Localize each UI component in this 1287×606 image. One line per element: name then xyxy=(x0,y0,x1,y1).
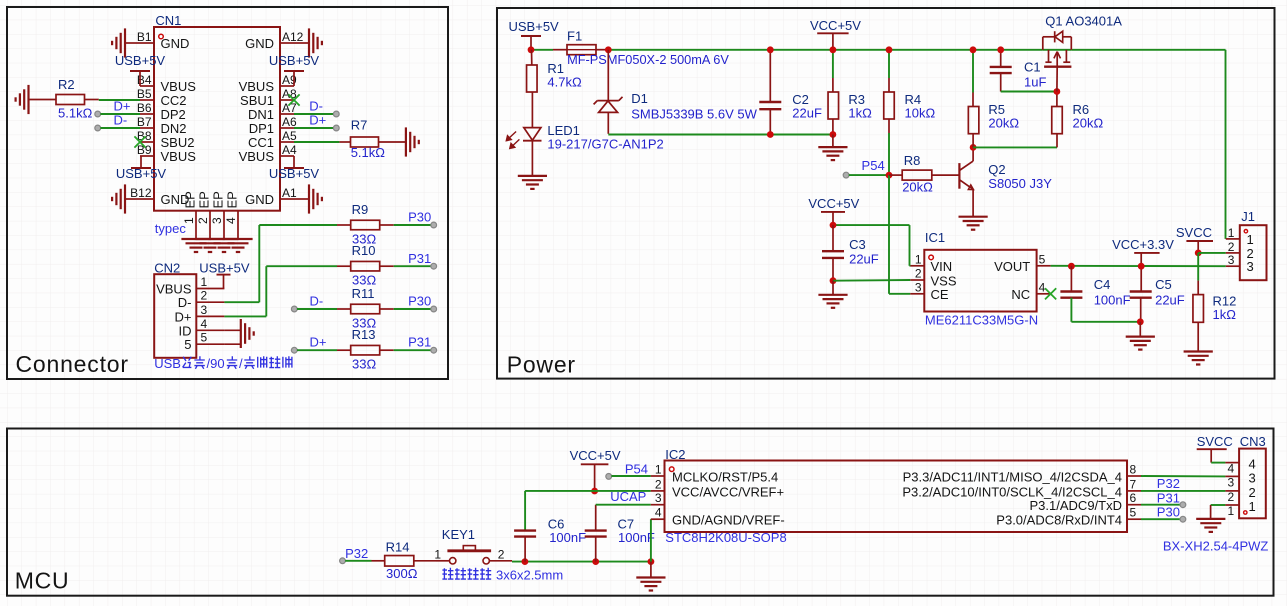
svg-text:22uF: 22uF xyxy=(849,252,879,267)
net label P30 at IC2 pin5 xyxy=(1141,504,1186,522)
svg-text:ME6211C33M5G-N: ME6211C33M5G-N xyxy=(925,313,1038,328)
svg-text:VCC+5V: VCC+5V xyxy=(808,196,859,211)
svg-text:EP: EP xyxy=(183,191,198,208)
net label P54 power xyxy=(843,158,889,178)
net label P31 at IC2 pin6 xyxy=(1141,490,1186,507)
IC1 pin 2 VSS xyxy=(910,267,957,289)
svg-text:SBU2: SBU2 xyxy=(161,135,195,150)
resistor R5 20k xyxy=(968,50,1019,148)
svg-text:5: 5 xyxy=(1130,506,1137,520)
svg-text:5.1kΩ: 5.1kΩ xyxy=(58,106,93,121)
svg-text:GND/AGND/VREF-: GND/AGND/VREF- xyxy=(672,513,785,528)
svg-text:3: 3 xyxy=(1249,470,1256,485)
ground at LED1 xyxy=(518,175,547,177)
CN1 pin A6 DP1 xyxy=(249,115,297,136)
svg-text:VBUS: VBUS xyxy=(161,79,197,94)
svg-text:ID: ID xyxy=(179,323,192,338)
svg-text:D-: D- xyxy=(309,99,323,114)
svg-text:4: 4 xyxy=(655,506,662,520)
svg-text:3: 3 xyxy=(1228,475,1235,489)
wire CN3 pin1 to ground xyxy=(1211,505,1226,519)
wire D1 to C2 to R3 bottom xyxy=(608,134,833,136)
IC2 pin 3 xyxy=(651,491,665,505)
svg-text:R8: R8 xyxy=(904,153,921,168)
svg-text:Connector: Connector xyxy=(16,351,129,377)
svg-text:10kΩ: 10kΩ xyxy=(905,105,936,120)
svg-text:MCU: MCU xyxy=(15,568,70,594)
svg-text:4.7kΩ: 4.7kΩ xyxy=(547,75,582,90)
IC1 pin 3 CE xyxy=(910,280,949,302)
wire SVCC to J1 pin2 xyxy=(1198,252,1226,254)
svg-text:2: 2 xyxy=(1228,490,1235,504)
net label P54 at IC2 xyxy=(606,462,651,480)
svg-text:19-217/G7C-AN1P2: 19-217/G7C-AN1P2 xyxy=(547,137,663,152)
svg-text:1: 1 xyxy=(915,252,922,266)
net label D+ at A6 xyxy=(294,113,339,131)
svg-text:F1: F1 xyxy=(567,28,582,43)
svg-text:1: 1 xyxy=(1228,504,1235,518)
svg-text:1: 1 xyxy=(434,547,441,561)
svg-text:P3.1/ADC9/TxD: P3.1/ADC9/TxD xyxy=(1030,498,1122,513)
svg-text:IC2: IC2 xyxy=(665,447,685,462)
net label P31 at R13 xyxy=(394,335,437,353)
wire R5 bottom to R6 bottom xyxy=(973,146,1057,148)
svg-text:A7: A7 xyxy=(282,101,297,115)
svg-text:P31: P31 xyxy=(408,251,431,266)
svg-text:D1: D1 xyxy=(631,91,648,106)
svg-text:R10: R10 xyxy=(352,243,376,258)
svg-text:D+: D+ xyxy=(309,113,326,128)
svg-text:3: 3 xyxy=(915,280,922,294)
svg-text:5: 5 xyxy=(201,331,208,345)
svg-text:USB+5V: USB+5V xyxy=(269,166,320,181)
junction C7 bottom xyxy=(592,558,599,565)
wire IC2 pin7 to CN3 pin2 xyxy=(1141,476,1225,491)
IC2 pin 1 xyxy=(651,463,778,485)
svg-text:22uF: 22uF xyxy=(792,105,822,120)
svg-text:CN1: CN1 xyxy=(155,13,181,28)
CN1 pin A9 VBUS xyxy=(239,73,297,94)
svg-text:20kΩ: 20kΩ xyxy=(988,116,1019,131)
power flag VCC+3.3V xyxy=(1112,237,1174,266)
svg-text:A1: A1 xyxy=(282,186,297,200)
CN1 pin EP2 xyxy=(196,191,212,239)
resistor R2 5.1k xyxy=(56,77,93,121)
svg-text:J1: J1 xyxy=(1241,209,1255,224)
section box Power xyxy=(497,8,1275,379)
svg-text:VCC+5V: VCC+5V xyxy=(810,18,861,33)
capacitor C6 100nF xyxy=(514,517,586,562)
CN2 pin 5 5 xyxy=(184,331,224,353)
svg-text:/90: /90 xyxy=(207,356,225,371)
CN2 pin 1 VBUS xyxy=(156,275,224,297)
capacitor C3 22uF xyxy=(822,225,879,281)
wire VOUT rail xyxy=(1051,265,1226,267)
svg-text:GND: GND xyxy=(245,192,274,207)
svg-text:B1: B1 xyxy=(137,30,152,44)
mcu IC2 body xyxy=(665,447,1128,545)
svg-text:D+: D+ xyxy=(114,99,131,114)
svg-text:1kΩ: 1kΩ xyxy=(1213,307,1237,322)
ground at C5 xyxy=(1126,322,1155,350)
capacitor C7 100nF xyxy=(585,505,655,562)
wire CN2 pin2 xyxy=(224,301,259,303)
IC2 pin 4 xyxy=(651,506,785,528)
power flag USB+5V input xyxy=(509,19,560,50)
svg-text:Q1 AO3401A: Q1 AO3401A xyxy=(1045,13,1122,28)
svg-text:R14: R14 xyxy=(386,539,410,554)
ground at CN3 pin1 xyxy=(1196,519,1225,532)
power flag VCC+5V top xyxy=(810,18,861,50)
ground for CN1 EP pins xyxy=(181,239,252,252)
wire row2 VCC to IC2 xyxy=(525,491,651,531)
svg-text:typec: typec xyxy=(155,221,187,236)
IC1 pin 1 VIN xyxy=(910,252,952,274)
svg-text:P30: P30 xyxy=(408,294,431,309)
svg-text:DP1: DP1 xyxy=(249,121,274,136)
junction VCC row2 xyxy=(591,488,598,495)
svg-text:D+: D+ xyxy=(175,309,192,324)
ground at CN1 A12 xyxy=(294,28,322,57)
svg-text:CE: CE xyxy=(931,287,949,302)
svg-text:Power: Power xyxy=(507,352,576,378)
ground at R7 xyxy=(405,127,407,156)
CN2 pin 4 ID xyxy=(179,317,225,339)
no-connect X at IC1 NC xyxy=(1045,288,1056,299)
svg-text:7: 7 xyxy=(1130,477,1137,491)
IC2 pin 2 xyxy=(651,477,784,499)
svg-text:100nF: 100nF xyxy=(549,530,586,545)
connector CN2 body xyxy=(154,274,196,358)
svg-text:R2: R2 xyxy=(58,77,75,92)
ground at Q2 emitter xyxy=(959,216,988,218)
junction C6 bottom xyxy=(522,558,529,565)
wire R2 to CN1 B5 xyxy=(85,99,141,102)
svg-text:VCC+5V: VCC+5V xyxy=(570,448,621,463)
svg-text:R13: R13 xyxy=(352,327,376,342)
svg-text:5: 5 xyxy=(184,337,191,352)
wire KEY1 to capacitors xyxy=(512,561,651,563)
svg-text:MCLKO/RST/P5.4: MCLKO/RST/P5.4 xyxy=(672,469,778,484)
connector J1 body xyxy=(1240,209,1267,280)
svg-text:4: 4 xyxy=(1228,462,1235,476)
CN1 pin B4 VBUS xyxy=(137,73,196,94)
svg-text:4: 4 xyxy=(1039,280,1046,294)
net label P32 at R14 xyxy=(340,546,372,564)
IC1 pin 4 NC xyxy=(1011,280,1050,302)
IC2 pin 6 xyxy=(1030,491,1141,513)
svg-text:P31: P31 xyxy=(408,335,431,350)
resistor R4 10k xyxy=(884,50,936,175)
svg-text:3: 3 xyxy=(201,303,208,317)
regulator IC1 ME6211 xyxy=(924,230,1038,328)
svg-text:1: 1 xyxy=(1228,226,1235,240)
capacitor C4 100nF xyxy=(1060,266,1140,322)
CN1 pin B8 SBU2 xyxy=(137,129,195,150)
resistor R3 1k xyxy=(828,50,872,135)
junction C3 bottom xyxy=(830,277,837,284)
svg-text:CC2: CC2 xyxy=(161,93,187,108)
svg-text:STC8H2K08U-SOP8: STC8H2K08U-SOP8 xyxy=(665,530,786,545)
CN3 pin 2 xyxy=(1225,485,1255,504)
fuse F1 xyxy=(553,28,729,67)
wire IC2 pin8 to CN3 pin3 xyxy=(1141,475,1225,477)
svg-text:5: 5 xyxy=(1039,252,1046,266)
resistor R14 300ohm xyxy=(372,539,437,581)
svg-text:3: 3 xyxy=(1247,259,1254,274)
resistor R10 33ohm xyxy=(337,243,394,287)
junction C1 top xyxy=(997,46,1004,53)
svg-text:SMBJ5339B 5.6V 5W: SMBJ5339B 5.6V 5W xyxy=(631,107,757,122)
svg-text:D-: D- xyxy=(114,113,128,128)
IC1 pin 5 VOUT xyxy=(994,252,1051,274)
net label D+ at B6 xyxy=(95,99,140,117)
svg-text:2: 2 xyxy=(915,267,922,281)
svg-text:C1: C1 xyxy=(1024,60,1041,75)
CN2 pin 2 D- xyxy=(178,289,225,311)
svg-text:B6: B6 xyxy=(137,101,152,115)
power flag VCC+5V at C3 xyxy=(808,196,859,225)
svg-text:DN1: DN1 xyxy=(248,107,274,122)
power flag SVCC at CN3 xyxy=(1197,434,1233,463)
svg-text:4: 4 xyxy=(224,217,238,224)
junction SVCC xyxy=(1195,250,1202,257)
svg-text:P30: P30 xyxy=(1157,504,1180,519)
svg-text:A12: A12 xyxy=(282,30,304,44)
J1 pin 3 xyxy=(1226,253,1254,274)
svg-text:C4: C4 xyxy=(1094,277,1111,292)
switch KEY1 xyxy=(434,527,512,564)
svg-text:B5: B5 xyxy=(137,87,152,101)
svg-text:B7: B7 xyxy=(137,115,152,129)
CN1 pin A5 CC1 xyxy=(248,129,297,150)
svg-text:EP: EP xyxy=(197,191,212,208)
svg-text:1: 1 xyxy=(1247,232,1254,247)
capacitor C2 22uF xyxy=(759,50,822,135)
power flag SVCC xyxy=(1176,225,1213,253)
svg-text:GND: GND xyxy=(161,36,190,51)
CN2 value label USB plug chinese xyxy=(154,356,292,371)
svg-text:C3: C3 xyxy=(849,237,866,252)
wire main 5V rail xyxy=(531,50,1226,239)
svg-text:P30: P30 xyxy=(408,210,431,225)
svg-text:VCC/AVCC/VREF+: VCC/AVCC/VREF+ xyxy=(672,484,784,499)
junction P54 xyxy=(886,172,893,179)
wire C3 top to IC1 VIN xyxy=(833,225,910,266)
CN1 pin B9 VBUS xyxy=(137,143,196,164)
wire C3 bottom to IC1 VSS xyxy=(833,279,910,282)
svg-text:3x6x2.5mm: 3x6x2.5mm xyxy=(496,568,563,583)
svg-text:3: 3 xyxy=(210,217,224,224)
junction C1 gate R6 xyxy=(1054,88,1061,95)
svg-text:1: 1 xyxy=(1249,499,1256,514)
svg-text:R9: R9 xyxy=(352,202,369,217)
svg-text:P3.3/ADC11/INT1/MISO_4/I2CSDA_: P3.3/ADC11/INT1/MISO_4/I2CSDA_4 xyxy=(903,469,1122,484)
svg-text:P32: P32 xyxy=(345,546,368,561)
section box Connector xyxy=(7,7,448,379)
svg-text:A6: A6 xyxy=(282,115,297,129)
svg-text:USB+5V: USB+5V xyxy=(199,260,250,275)
CN1 pin EP3 xyxy=(210,191,226,239)
junction R4 top xyxy=(886,46,893,53)
resistor R1 4.7k xyxy=(527,50,582,92)
junction C5 bottom xyxy=(1137,318,1144,325)
svg-text:DN2: DN2 xyxy=(161,121,187,136)
CN1 pin B5 CC2 xyxy=(137,87,187,108)
ground at CN2 pins 4-5 xyxy=(241,319,254,348)
junction R3 bottom xyxy=(830,131,837,138)
svg-text:GND: GND xyxy=(245,36,274,51)
zener diode D1 xyxy=(594,50,758,134)
svg-text:UCAP: UCAP xyxy=(610,489,646,504)
power flag USB+5V at B4 xyxy=(115,53,166,86)
svg-text:2: 2 xyxy=(1228,240,1235,254)
CN1 pin B12 GND xyxy=(130,186,189,207)
svg-text:USB+5V: USB+5V xyxy=(269,53,320,68)
junction at F1 output xyxy=(605,46,612,53)
CN1 pin EP4 xyxy=(224,191,240,239)
ground at C3 xyxy=(818,281,847,308)
svg-text:300Ω: 300Ω xyxy=(386,566,418,581)
svg-text:VIN: VIN xyxy=(931,259,953,274)
svg-text:VBUS: VBUS xyxy=(239,149,275,164)
svg-text:USB+5V: USB+5V xyxy=(509,19,560,34)
CN1 pin A1 GND xyxy=(245,186,297,207)
junction C2 top xyxy=(767,46,774,53)
CN1 pin B7 DN2 xyxy=(137,115,187,136)
svg-text:5.1kΩ: 5.1kΩ xyxy=(351,145,386,160)
wire CN2 pin3 xyxy=(224,315,266,317)
ground at MCU caps xyxy=(636,562,665,591)
svg-text:KEY1: KEY1 xyxy=(442,527,475,542)
svg-text:S8050 J3Y: S8050 J3Y xyxy=(988,176,1052,191)
power flag VCC+5V MCU xyxy=(570,448,621,491)
net label P30 at R9 xyxy=(394,210,437,228)
svg-text:P54: P54 xyxy=(625,462,648,477)
CN1 pin A12 GND xyxy=(245,30,304,51)
svg-text:B12: B12 xyxy=(130,186,152,200)
svg-text:B4: B4 xyxy=(137,73,152,87)
KEY1 value label chinese 3x6x2.5mm xyxy=(442,568,563,583)
resistor R6 20k xyxy=(1052,92,1104,148)
svg-text:EP: EP xyxy=(225,191,240,208)
svg-text:2: 2 xyxy=(196,217,210,224)
svg-text:A4: A4 xyxy=(282,143,297,157)
svg-text:8: 8 xyxy=(1130,463,1137,477)
net label D- at A7 xyxy=(294,99,339,117)
CN3 pin 1 xyxy=(1225,499,1255,518)
resistor R13 33ohm xyxy=(337,327,394,371)
svg-text:20kΩ: 20kΩ xyxy=(1073,116,1104,131)
svg-text:P54: P54 xyxy=(862,158,885,173)
svg-text:4: 4 xyxy=(1249,457,1256,472)
no-connect X at A8 xyxy=(288,94,299,105)
wire row4 GND to IC2 xyxy=(650,519,652,561)
junction R5 top xyxy=(970,46,977,53)
svg-text:P31: P31 xyxy=(1157,490,1180,505)
resistor R9 33ohm xyxy=(337,202,394,246)
svg-text:D+: D+ xyxy=(310,335,327,350)
svg-text:IC1: IC1 xyxy=(925,230,945,245)
junction C2 bottom xyxy=(767,131,774,138)
svg-text:2: 2 xyxy=(498,547,505,561)
connector CN3 body xyxy=(1163,434,1269,553)
svg-text:2: 2 xyxy=(1249,485,1256,500)
svg-text:100nF: 100nF xyxy=(618,530,655,545)
ground at CN1 B12 xyxy=(112,184,140,213)
transistor Q2 S8050 xyxy=(959,147,1052,216)
svg-text:MF-PSMF050X-2 500mA 6V: MF-PSMF050X-2 500mA 6V xyxy=(567,52,729,67)
svg-text:P32: P32 xyxy=(1157,476,1180,491)
svg-text:EP: EP xyxy=(211,191,226,208)
svg-text:4: 4 xyxy=(201,317,208,331)
CN3 pin 4 xyxy=(1225,457,1255,476)
power flag USB+5V at A4 xyxy=(269,156,320,181)
wire CN2 pin4 to ground xyxy=(224,329,240,331)
net label D- at R11 xyxy=(291,294,337,312)
svg-text:1uF: 1uF xyxy=(1024,75,1046,90)
wire CN2 pin2 to R9 xyxy=(259,225,337,302)
svg-text:CC1: CC1 xyxy=(248,135,274,150)
svg-text:P3.0/ADC8/RxD/INT4: P3.0/ADC8/RxD/INT4 xyxy=(996,513,1122,528)
svg-text:1: 1 xyxy=(201,275,208,289)
ground at R3 xyxy=(818,135,847,161)
wire CN2 pin5 to ground xyxy=(224,343,240,345)
svg-text:SVCC: SVCC xyxy=(1176,225,1212,240)
net label D+ at R13 xyxy=(291,335,337,353)
junction C3 top xyxy=(830,222,837,229)
svg-text:D-: D- xyxy=(310,294,324,309)
svg-text:100nF: 100nF xyxy=(1094,293,1131,308)
junction Q2 collector xyxy=(970,144,977,151)
mosfet Q1 AO3401A xyxy=(1043,13,1122,91)
svg-text:VCC+3.3V: VCC+3.3V xyxy=(1112,237,1174,252)
svg-text:3: 3 xyxy=(655,491,662,505)
resistor R7 5.1k xyxy=(339,117,406,160)
junction at USB+5V xyxy=(528,46,535,53)
svg-text:VOUT: VOUT xyxy=(994,259,1030,274)
svg-text:/: / xyxy=(239,356,243,371)
CN2 pin 3 D+ xyxy=(175,303,225,325)
svg-text:SVCC: SVCC xyxy=(1197,434,1233,449)
svg-text:R11: R11 xyxy=(352,286,375,301)
net label P31 at R10 xyxy=(394,251,437,269)
CN1 pin A4 VBUS xyxy=(239,143,297,164)
LED LED1 xyxy=(506,92,663,176)
capacitor C5 22uF xyxy=(1130,266,1185,322)
section box MCU xyxy=(7,429,1274,596)
svg-text:CN3: CN3 xyxy=(1240,434,1266,449)
CN1 pin EP1 xyxy=(182,191,198,239)
ground at R2 xyxy=(16,85,56,114)
CN1 pin A8 SBU1 xyxy=(240,87,297,108)
svg-text:BX-XH2.54-4PWZ: BX-XH2.54-4PWZ xyxy=(1163,539,1269,554)
svg-text:2: 2 xyxy=(655,477,662,491)
svg-text:USB: USB xyxy=(154,356,181,371)
svg-text:22uF: 22uF xyxy=(1155,293,1185,308)
junction C4 top xyxy=(1068,263,1075,270)
wire P54 to IC1 CE xyxy=(889,175,910,294)
CN1 pin A7 DN1 xyxy=(248,101,297,122)
ground at CN1 A1 xyxy=(294,184,322,213)
IC2 pin 8 xyxy=(903,463,1141,485)
svg-text:33Ω: 33Ω xyxy=(352,357,376,372)
svg-text:C5: C5 xyxy=(1155,277,1172,292)
svg-text:VBUS: VBUS xyxy=(239,79,275,94)
capacitor C1 1uF xyxy=(990,50,1057,92)
svg-text:NC: NC xyxy=(1011,287,1030,302)
CN1 pin B6 DP2 xyxy=(137,101,186,122)
